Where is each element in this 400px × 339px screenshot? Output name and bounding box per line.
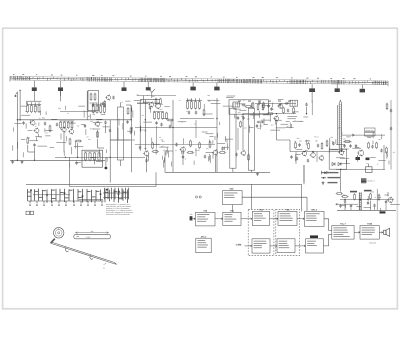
label osc	[88, 115, 90, 118]
capacitor C47	[390, 109, 392, 113]
wire can2 bottom	[251, 170, 253, 172]
cord spring hook 2	[90, 255, 93, 260]
wire AM input	[17, 96, 58, 120]
wire	[56, 142, 66, 144]
wire	[287, 116, 297, 118]
wire	[70, 147, 72, 154]
wire	[101, 113, 106, 115]
wire to chassis rail	[34, 147, 36, 160]
wire	[127, 130, 132, 132]
wire	[384, 194, 388, 196]
wire det line upper	[255, 103, 296, 105]
resistor R37	[257, 121, 264, 123]
wire	[207, 99, 214, 101]
wire blob drop 1	[311, 91, 313, 103]
wire	[212, 140, 214, 144]
junction dots general	[17, 113, 342, 170]
capacitor C37	[344, 200, 346, 204]
dial cord drum	[54, 228, 64, 238]
wire	[269, 114, 271, 122]
capacitor C44	[169, 125, 171, 129]
wire	[37, 134, 39, 137]
transistor TS14	[387, 197, 393, 204]
svg-text:B2a: B2a	[42, 117, 45, 120]
transistor TS19	[105, 94, 110, 100]
wire antenna down-lead	[16, 96, 18, 160]
wire	[259, 111, 261, 118]
mini labels	[350, 190, 372, 193]
capacitor C22	[267, 104, 269, 108]
wire	[235, 115, 237, 118]
resistor R43	[376, 142, 378, 149]
resistor R44	[386, 147, 388, 154]
transistor TS5	[94, 121, 99, 127]
wire	[65, 106, 67, 110]
capacitor C43	[160, 123, 162, 127]
wire long vertical x110	[109, 120, 111, 183]
resistor R47	[370, 193, 372, 200]
capacitor C33	[371, 145, 373, 149]
svg-text:TSL-7: TSL-7	[340, 223, 346, 226]
resistor R30	[219, 152, 226, 154]
wire	[212, 152, 214, 159]
wire	[329, 147, 331, 153]
junction dot on rail	[105, 157, 108, 169]
wire	[195, 148, 197, 156]
wire	[252, 112, 254, 119]
wire	[210, 155, 212, 163]
wire	[286, 121, 290, 123]
resistor R22	[160, 98, 162, 105]
wire	[203, 104, 205, 109]
wire	[289, 123, 291, 129]
resistor R59	[245, 106, 252, 108]
wire	[60, 134, 62, 140]
capacitor C26	[298, 143, 300, 147]
wire	[162, 118, 168, 120]
wire	[234, 114, 236, 118]
wire	[140, 126, 142, 132]
arrow TS6-TS2	[215, 218, 223, 220]
bandfilter unit box	[82, 150, 103, 167]
resistor R27	[190, 140, 192, 148]
wire	[83, 111, 85, 118]
dial lamp bracket 8	[360, 85, 365, 93]
wire	[332, 141, 334, 145]
trimmer resistor group R7-R10	[60, 121, 75, 129]
wire	[343, 141, 352, 143]
resistor R46	[354, 193, 356, 200]
wire	[208, 140, 210, 144]
cord tip label	[103, 263, 106, 270]
wire	[223, 147, 225, 150]
resistor R6	[49, 125, 51, 133]
wire	[370, 156, 376, 158]
wire	[227, 95, 236, 97]
dial lamp bracket 1	[32, 81, 37, 91]
wire down x276	[276, 121, 278, 140]
coil L5	[233, 102, 240, 107]
wire	[275, 118, 277, 125]
wire	[249, 127, 254, 129]
transistor TS18	[318, 155, 323, 161]
wire long vertical x140	[140, 100, 160, 151]
wire U98 to TSL7	[324, 234, 332, 246]
legend symbol signal arrow	[321, 172, 339, 174]
AM input label	[236, 243, 242, 246]
resistor R36	[283, 107, 285, 114]
wire stage coupling	[98, 139, 105, 148]
wire	[226, 143, 228, 150]
capacitor C6	[104, 121, 106, 125]
wire	[214, 136, 216, 140]
capacitor C56	[101, 102, 105, 104]
wire	[262, 105, 271, 107]
input connector	[190, 213, 193, 220]
wire af stub 1	[344, 204, 346, 211]
wire	[250, 114, 260, 116]
transistor TS16	[155, 103, 161, 110]
resistor R38	[295, 142, 297, 149]
wire	[380, 208, 382, 212]
resistor R39	[308, 142, 310, 149]
drum axle	[51, 239, 55, 244]
dial lamp bracket 4	[190, 83, 195, 91]
wire	[131, 127, 133, 131]
wire	[22, 152, 24, 157]
transistor TS4	[68, 128, 73, 134]
wire	[151, 138, 153, 143]
capacitor C19	[258, 101, 260, 105]
wire	[372, 132, 374, 139]
block TS6 RF stage	[196, 209, 216, 226]
rf coil unit box	[88, 91, 99, 111]
resistor R21	[155, 98, 157, 105]
capacitor C51	[285, 102, 289, 104]
ground center	[256, 172, 259, 175]
wire det line lower	[243, 113, 296, 115]
wire	[239, 109, 246, 111]
wire	[35, 137, 37, 140]
capacitor C45	[235, 153, 237, 157]
wire	[122, 123, 124, 129]
wire	[147, 157, 149, 162]
wire	[170, 120, 172, 127]
transistor TS9	[273, 115, 279, 121]
wire if mid run	[135, 144, 215, 146]
transistor TS20	[277, 103, 282, 109]
wire	[193, 161, 195, 165]
wire	[15, 122, 22, 124]
wire	[330, 149, 338, 151]
resistor R45	[341, 196, 348, 198]
transistor TS2	[34, 128, 39, 134]
wire	[390, 204, 400, 206]
resistor R11	[69, 138, 71, 146]
wire	[293, 111, 299, 113]
capacitor C14	[195, 111, 197, 115]
capacitor C32	[355, 144, 357, 148]
wire	[206, 152, 213, 154]
resistor R40	[321, 142, 323, 149]
svg-text:160: 160	[297, 137, 300, 140]
trimmer resistor group R1-R4	[27, 101, 42, 113]
resistor R56	[336, 193, 343, 195]
transistor TS7	[180, 146, 186, 153]
wire	[38, 122, 40, 126]
cord spring hook 1	[65, 247, 68, 252]
arrow TS2-TS3	[241, 218, 252, 220]
transistor TS3	[61, 126, 66, 132]
wire	[51, 118, 57, 120]
wire	[225, 136, 227, 142]
osc labels row	[238, 100, 291, 103]
ground chassis left	[11, 160, 14, 163]
wire	[340, 157, 349, 159]
capacitor C3	[33, 143, 35, 147]
dial lamp bracket 3b	[146, 82, 151, 90]
wire osc coupling	[242, 114, 244, 150]
capacitor C27	[317, 144, 319, 148]
wire	[75, 141, 77, 148]
wire	[164, 106, 170, 108]
transistor TS10	[301, 150, 307, 156]
capacitor C50	[279, 103, 281, 107]
wire	[93, 128, 100, 130]
label B1	[25, 110, 45, 120]
svg-text:TS8d: TS8d	[367, 223, 373, 226]
resistor R26	[203, 109, 205, 117]
switch S1 contact bank	[28, 189, 128, 206]
wire	[155, 148, 157, 154]
capacitor C25	[256, 124, 258, 128]
wire	[69, 122, 76, 124]
capacitor C54	[290, 155, 292, 159]
wire	[63, 151, 65, 156]
wire	[94, 159, 96, 165]
svg-text:∿AM: ∿AM	[236, 243, 242, 246]
wire af drop 1	[371, 192, 389, 210]
junction node	[17, 119, 21, 120]
wire	[17, 142, 19, 149]
resistor R57	[326, 140, 328, 147]
block TS4 IF amp	[278, 209, 297, 226]
resistor R16	[97, 131, 99, 139]
wire	[259, 124, 261, 130]
wire drop to TS3 group	[250, 184, 252, 209]
arrow TSL7-TS8d	[354, 231, 360, 233]
wire	[202, 131, 208, 133]
wire	[170, 162, 172, 167]
svg-text:Gemessen mit Rohrenvoltmeter.: Gemessen mit Rohrenvoltmeter.	[106, 213, 131, 216]
wire mixer link	[110, 139, 135, 141]
label 160	[297, 137, 300, 140]
dial scale assembly	[10, 74, 388, 86]
wire	[166, 150, 173, 152]
wire trimmer feed 2	[60, 91, 62, 101]
wire	[45, 111, 47, 115]
block TS4b AM IF	[277, 239, 295, 253]
ground chassis 2	[21, 160, 24, 163]
resistor R31	[252, 102, 254, 109]
wire af stub 3	[374, 208, 376, 211]
wire enclosure left edge	[164, 151, 166, 172]
capacitor C12	[149, 106, 151, 110]
wire	[336, 157, 345, 159]
osc feed symbol	[149, 89, 155, 98]
wire	[81, 124, 85, 126]
wire	[89, 114, 91, 119]
label 2n	[299, 140, 318, 143]
wire	[162, 156, 164, 160]
pointer bar	[74, 230, 111, 239]
wire	[96, 161, 103, 163]
switch detail strokes	[103, 188, 129, 199]
capacitor C48	[390, 127, 392, 131]
wire long vertical x145	[144, 100, 146, 151]
switch legend box	[26, 211, 34, 214]
wire	[133, 131, 135, 136]
wire U6 to detector	[242, 197, 307, 211]
resistor R42	[368, 142, 370, 149]
capacitor C42	[155, 121, 157, 125]
wire	[270, 129, 280, 131]
wire osc right drop	[311, 100, 313, 115]
wire	[214, 100, 219, 102]
capacitor C4	[56, 123, 58, 127]
wire	[340, 162, 350, 164]
wire	[93, 122, 102, 124]
wire	[76, 161, 81, 163]
wire	[287, 118, 296, 120]
resistor R33	[240, 121, 242, 128]
electrolytic C34	[356, 155, 361, 160]
label tuning caps	[365, 128, 376, 136]
wire	[183, 138, 185, 144]
wire	[150, 108, 152, 113]
wire	[372, 141, 374, 144]
label BAL-D9	[370, 241, 376, 244]
wire osc top line	[137, 95, 176, 97]
capacitor C36	[380, 149, 382, 153]
pcb grid icon	[361, 178, 375, 183]
capacitor C2	[44, 122, 46, 126]
wire right feed	[307, 105, 338, 145]
wire	[281, 123, 289, 125]
wire	[21, 138, 25, 140]
diode D2	[338, 163, 341, 166]
wire	[143, 121, 152, 123]
arrow TS3-TS4	[270, 218, 278, 220]
capacitor C53	[332, 142, 334, 146]
block U6 power supply	[223, 187, 243, 204]
resistor R19	[152, 142, 154, 150]
wire long vertical x131	[130, 105, 132, 172]
capacitor C55	[112, 96, 114, 100]
af output stage rail	[337, 209, 396, 211]
wire	[352, 147, 361, 149]
wire af feed vertical	[376, 189, 378, 211]
wire	[295, 155, 297, 161]
wire	[203, 113, 213, 115]
wire	[90, 157, 96, 159]
capacitor C28	[296, 157, 298, 161]
dial lamp bracket 3	[122, 82, 127, 91]
capacitor C5	[84, 124, 86, 128]
wire can1 bottom	[232, 168, 234, 172]
capacitor C49	[270, 107, 272, 111]
wire	[166, 147, 168, 153]
wire	[29, 140, 38, 142]
wire	[105, 150, 107, 154]
capacitor C40	[373, 204, 375, 208]
wire emitter TS7	[182, 152, 184, 165]
junction dots af	[344, 199, 368, 201]
wire	[125, 100, 130, 102]
wire	[217, 143, 225, 145]
wire IF takeoff	[93, 120, 131, 133]
capacitor C30	[343, 144, 345, 148]
transistor TS15	[148, 101, 153, 107]
capacitor C29	[307, 159, 309, 163]
svg-text:L 485: L 485	[86, 236, 90, 239]
wire	[206, 133, 214, 135]
legend symbol chassis	[322, 181, 338, 184]
arrow AM into TS3b	[245, 245, 253, 247]
wire	[346, 136, 350, 138]
wire fm line	[342, 134, 385, 136]
wire	[208, 156, 210, 161]
legend symbol dc path	[321, 177, 340, 179]
ratio detector box	[329, 149, 347, 169]
wire center chassis rail	[165, 171, 270, 173]
wire	[263, 118, 265, 125]
wire	[225, 138, 233, 140]
capacitor C21	[242, 116, 244, 120]
resistor R52	[199, 142, 201, 149]
wire	[178, 121, 186, 123]
wire ht rail extension	[173, 127, 217, 129]
wire	[226, 140, 228, 143]
wire	[30, 120, 32, 125]
capacitor C41	[385, 200, 387, 204]
wire main vertical V1	[216, 98, 218, 172]
resistor group R13-R15	[92, 103, 106, 114]
wire rf box feed	[86, 91, 88, 120]
svg-text:BF1-2: BF1-2	[311, 209, 317, 212]
wire	[96, 130, 98, 137]
resistor R58	[104, 100, 106, 107]
wire	[299, 120, 304, 122]
ferrite rod antenna	[339, 100, 341, 152]
capacitor C52	[339, 204, 341, 208]
resistor R32	[263, 102, 265, 109]
wire	[264, 123, 268, 125]
resistor R5	[27, 137, 29, 145]
wire drop to U6	[231, 205, 233, 213]
wire	[388, 161, 390, 165]
wire down to coil box	[64, 132, 78, 158]
wire	[96, 118, 102, 120]
capacitor C13	[188, 111, 190, 115]
wire	[291, 124, 293, 127]
wire	[148, 153, 150, 157]
svg-text:AF1-3: AF1-3	[201, 235, 207, 238]
IF module dashed enclosure 1	[248, 209, 274, 255]
transistor TS17	[240, 150, 245, 156]
resistor group R23-R25	[186, 98, 202, 109]
wire	[106, 157, 108, 161]
